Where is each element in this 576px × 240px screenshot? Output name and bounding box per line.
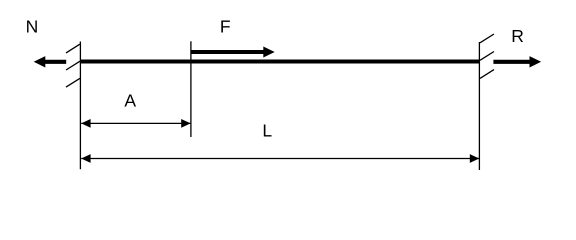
reaction force N arrow (points left) [34, 56, 66, 67]
right support hatch 1 [480, 34, 494, 43]
left support wall line [79, 42, 81, 170]
right support hatch 3 [480, 70, 494, 79]
bar (axial member) [80, 59, 480, 63]
left support hatch 1 [66, 44, 80, 53]
svg-text:L: L [262, 121, 272, 141]
label F [220, 17, 231, 37]
left support hatch 3 [66, 78, 80, 87]
svg-text:F: F [220, 17, 231, 37]
label L [262, 121, 272, 141]
right support hatch 2 [480, 52, 494, 61]
svg-text:R: R [511, 26, 524, 46]
label N [26, 17, 39, 37]
svg-text:N: N [26, 17, 39, 37]
reaction force R arrow (points right) [493, 56, 541, 67]
label A [124, 91, 136, 111]
label R [511, 26, 524, 46]
force application line at F [190, 41, 192, 137]
left support hatch 2 [66, 61, 80, 70]
dimension line A [81, 119, 190, 128]
dimension line L [81, 154, 479, 163]
svg-text:A: A [124, 91, 136, 111]
applied force F arrow (points right, above bar) [192, 47, 275, 58]
right support wall line [478, 42, 480, 170]
